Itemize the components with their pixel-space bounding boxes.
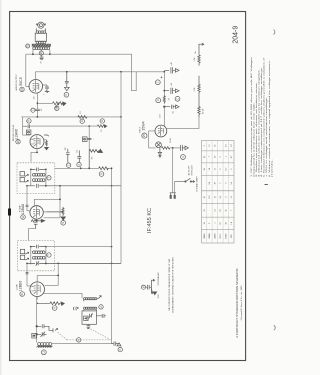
svg-text:150: 150 [34, 96, 36, 99]
gang cap bottom [87, 324, 91, 328]
AVC into T1 secondary [27, 263, 30, 286]
ref R8 [156, 98, 161, 103]
svg-text:A PHOTOFACT STANDARD NOTATION: A PHOTOFACT STANDARD NOTATION SCHEMATIC [235, 268, 239, 338]
speaker SP [36, 22, 46, 31]
12AV6 cathode resistor [44, 135, 49, 150]
fixed cap right [96, 314, 106, 318]
svg-text:+30: +30 [171, 83, 173, 86]
svg-text:0: 0 [209, 223, 211, 224]
tube V3 12AV6 [30, 135, 44, 149]
boxed label C [26, 130, 31, 135]
svg-text:M: M [142, 286, 145, 288]
T2 tuning slug A [20, 172, 28, 177]
svg-text:20: 20 [41, 62, 43, 64]
svg-text:.02: .02 [41, 109, 43, 112]
surge resistor vertical [163, 95, 165, 104]
ref C13 [77, 162, 81, 166]
scan edge strip [0, 0, 1, 375]
on-off switch [185, 178, 195, 182]
resistor inline on AVC line [78, 116, 87, 119]
svg-text:12BE6: 12BE6 [204, 232, 206, 239]
svg-text:6.3: 6.3 [215, 209, 217, 212]
svg-text:98: 98 [204, 168, 206, 170]
ref L2 [41, 350, 46, 355]
AC cord down [172, 148, 174, 193]
svg-text:0: 0 [220, 169, 222, 170]
svg-text:117: 117 [226, 168, 228, 171]
svg-text:AC ON-OFF: AC ON-OFF [187, 164, 190, 175]
ref C18 [175, 96, 180, 101]
osc grid resistor [37, 302, 64, 306]
cap C20 below jack [40, 55, 44, 60]
svg-text:R: R [28, 120, 31, 122]
cap inline on AVC dropper [87, 138, 91, 139]
line bypass cap [181, 145, 189, 151]
ref R7 [52, 306, 57, 311]
loop trimmer [89, 314, 93, 319]
svg-text:6.3: 6.3 [226, 144, 228, 147]
svg-text:0: 0 [220, 156, 222, 157]
ref C16 [31, 108, 35, 112]
AVC line [21, 116, 121, 118]
svg-text:WOUND WHERE IT CROSSING TO ADJ: WOUND WHERE IT CROSSING TO ADJUST FOR TH… [172, 257, 175, 313]
ref V4 [20, 87, 24, 91]
gang dashed link [58, 329, 112, 340]
tube voltage table [202, 141, 235, 244]
svg-text:12AV6: 12AV6 [214, 232, 217, 239]
B+ screen line [35, 71, 163, 73]
svg-text:RECT: RECT [139, 126, 141, 132]
svg-text:C: C [28, 131, 31, 133]
svg-text:1.4: 1.4 [231, 222, 233, 225]
svg-text:117: 117 [220, 209, 222, 212]
ref C bus1 [118, 347, 122, 351]
coupling cap C16 [35, 109, 40, 110]
svg-text:95: 95 [215, 145, 217, 147]
T2 primary cap [31, 168, 46, 172]
ref C12 [66, 163, 70, 167]
svg-text:50C5: 50C5 [19, 77, 23, 86]
osc grid cap [36, 324, 53, 330]
svg-text:-1: -1 [215, 222, 217, 224]
osc grid line [36, 297, 38, 343]
loop coil B [84, 307, 97, 309]
svg-text:35W4: 35W4 [226, 233, 228, 239]
svg-text:98: 98 [226, 222, 228, 224]
AC plug [170, 193, 176, 199]
svg-text:.05: .05 [173, 111, 175, 114]
B+ down to rectifier [198, 117, 200, 128]
12BA6 cathode network [31, 219, 45, 229]
T2 grid wrap [34, 186, 60, 218]
loop coil A [84, 298, 97, 300]
external antenna group [141, 285, 145, 289]
svg-text:0: 0 [231, 169, 233, 170]
center tap jack M1 [40, 50, 42, 51]
svg-text:C: C [78, 163, 81, 165]
svg-text:204-9: 204-9 [233, 26, 240, 44]
svg-text:1.4: 1.4 [209, 168, 211, 171]
osc coil core [37, 346, 53, 348]
svg-text:35W4: 35W4 [170, 138, 172, 143]
resistor R3 w ground [89, 149, 102, 168]
gimmick mark [73, 307, 78, 311]
svg-text:R: R [100, 173, 103, 175]
tube V1 12BE6 [30, 282, 45, 297]
cap C12 to det line [66, 149, 70, 163]
B+ resistor R10 [198, 76, 200, 95]
bus1 end cap [112, 342, 122, 346]
osc feedback contact [53, 328, 58, 332]
grid branch [23, 117, 31, 135]
svg-text:VOLTAGE CHART: VOLTAGE CHART [196, 175, 199, 191]
ref R4 on AVC [27, 119, 31, 123]
volume control R6 wire [37, 102, 52, 104]
B+ resistor R9 [198, 50, 200, 66]
T1 grid wrap [37, 263, 58, 285]
svg-text:ments.: ments. [271, 158, 274, 177]
svg-text:R: R [53, 307, 56, 309]
lamp wire right [170, 147, 181, 149]
svg-text:0: 0 [225, 197, 227, 198]
tube V5 35W4 [155, 125, 167, 137]
T1 tuning slug A [20, 249, 28, 254]
svg-text:C: C [119, 348, 122, 350]
T1 side rails [31, 247, 46, 265]
ref above [100, 119, 104, 123]
plug second lead [175, 182, 185, 193]
svg-text:AUDIO OUTPUT: AUDIO OUTPUT [15, 73, 18, 90]
svg-text:R: R [157, 99, 160, 101]
svg-text:1.2: 1.2 [231, 196, 233, 199]
tube V2 12BA6 [30, 206, 43, 219]
ref R2 [99, 172, 104, 177]
ref C19 [64, 93, 69, 98]
svg-text:85: 85 [226, 209, 228, 211]
output transformer T2 [35, 31, 46, 44]
svg-text:33: 33 [168, 98, 170, 100]
T2 coil secondary [33, 179, 46, 182]
AVC filter line [30, 125, 98, 127]
ref loop [99, 305, 103, 309]
plate feed to bus [46, 246, 112, 248]
svg-text:4.7: 4.7 [220, 222, 222, 225]
50C5 cathode lead [36, 94, 38, 118]
ref C17 [181, 155, 186, 160]
ext ant cap [146, 285, 152, 290]
svg-text:R: R [62, 222, 65, 224]
svg-text:12: 12 [215, 168, 217, 170]
plate cap to ground [164, 105, 180, 109]
registration tick on left border [8, 209, 11, 216]
svg-text:C: C [32, 109, 35, 111]
svg-text:R: R [101, 120, 104, 122]
svg-text:0: 0 [226, 183, 228, 184]
svg-text:12BA6: 12BA6 [208, 232, 211, 239]
AVC into secondary [27, 186, 30, 211]
svg-text:INTERLOCK: INTERLOCK [192, 164, 194, 175]
svg-text:GND: GND [158, 294, 160, 299]
svg-text:7: 7 [231, 210, 233, 211]
svg-text:47: 47 [215, 182, 217, 184]
pot R6 [53, 102, 67, 108]
svg-text:30: 30 [204, 222, 206, 224]
boxed label B [32, 333, 37, 338]
svg-text:90: 90 [204, 196, 206, 198]
svg-text:117: 117 [231, 144, 233, 147]
B+ bus (bus2) [120, 72, 122, 264]
svg-text:5.6: 5.6 [231, 182, 233, 185]
svg-text:2.2: 2.2 [101, 129, 103, 131]
IF transformer T2 dashed box [17, 163, 55, 194]
plate bypass cap C19 [64, 72, 69, 91]
svg-text:95: 95 [204, 209, 206, 211]
filter cap A [164, 67, 179, 73]
svg-text:2: 2 [220, 183, 222, 184]
svg-text:C: C [84, 138, 87, 140]
T1 secondary cap [27, 261, 121, 265]
svg-text:6. Volume control at maximum,: 6. Volume control at maximum, no signal … [268, 59, 271, 177]
loop arrow out [97, 296, 101, 299]
T1 coil primary [33, 251, 46, 254]
osc coil L2 [38, 343, 52, 346]
svg-text:EXTERNAL ANT: EXTERNAL ANT [157, 271, 160, 285]
T1 primary cap [31, 245, 46, 249]
svg-text:IF:455 KC: IF:455 KC [147, 208, 153, 233]
ext ant arrows [152, 279, 157, 294]
svg-text:PIN: PIN [231, 234, 233, 238]
ref V1 [20, 292, 25, 297]
svg-text:33: 33 [215, 196, 217, 198]
svg-text:0.5: 0.5 [220, 196, 222, 199]
T2 side rails [31, 169, 46, 185]
svg-text:+40: +40 [171, 62, 173, 65]
svg-text:C: C [67, 164, 70, 166]
wire plate 50C5 [26, 54, 30, 86]
T1 coil secondary [33, 256, 46, 259]
ref V2 [21, 215, 26, 220]
AVC bus (bus1) [111, 168, 113, 343]
svg-text:C: C [182, 156, 185, 158]
12AV6 out wire to IF [31, 152, 37, 161]
ref R1 [61, 221, 66, 226]
svg-text:C: C [65, 94, 68, 96]
transformer core [32, 44, 51, 47]
svg-text:THE CONSTRUCTION OF THE ADJUST: THE CONSTRUCTION OF THE ADJUSTED TURNS O… [168, 258, 171, 311]
svg-text:7: 7 [209, 156, 211, 157]
ref T2 [47, 176, 51, 180]
IF transformer T1 dashed box [17, 241, 54, 271]
svg-text:30: 30 [215, 156, 217, 158]
svg-text:-1: -1 [226, 156, 228, 158]
svg-text:1.2: 1.2 [209, 144, 211, 147]
right margin bracket marks [274, 30, 276, 35]
svg-text:250: 250 [65, 147, 67, 150]
heater resistor [162, 147, 170, 150]
resistor inline on AVC filter [97, 125, 105, 128]
svg-text:C: C [157, 81, 160, 83]
wire to T1 [29, 229, 36, 241]
50C5 screen bypass [45, 85, 49, 93]
wire B+ to output [50, 54, 136, 90]
svg-text:2: 2 [44, 94, 46, 95]
svg-text:R: R [81, 120, 84, 122]
cap C13 [77, 151, 81, 163]
ref R6 [55, 106, 59, 110]
heater ground [158, 148, 161, 157]
T2 secondary cap [27, 184, 121, 188]
ref T1 [26, 44, 30, 48]
svg-text:C: C [176, 98, 179, 100]
svg-text:0: 0 [204, 145, 206, 146]
resistor R2 inline [99, 167, 109, 170]
svg-text:12BE6: 12BE6 [19, 281, 23, 292]
grid cap [23, 124, 30, 128]
svg-text:+ 15% in voltage and resistanc: + 15% in voltage and resistance readings… [265, 96, 268, 177]
svg-text:.01: .01 [77, 150, 79, 152]
svg-text:110: 110 [209, 196, 211, 199]
svg-text:+: + [93, 139, 95, 140]
tube V4 50C5 [29, 80, 43, 94]
svg-text:12BA6: 12BA6 [21, 204, 25, 215]
svg-text:3.3: 3.3 [80, 111, 82, 113]
ref V3 [16, 140, 20, 144]
det line from T2 [55, 167, 99, 169]
svg-text:8.4: 8.4 [209, 182, 211, 185]
T2 tuning slug B [20, 177, 28, 182]
svg-text:©Howard W. Sams & Co., Inc. 19: ©Howard W. Sams & Co., Inc. 1952 [240, 285, 243, 321]
svg-text:1K 1W: 1K 1W [203, 108, 205, 114]
osc trimmer [36, 332, 47, 337]
transformer secondary [33, 47, 50, 50]
notes block [265, 184, 268, 186]
loop antenna wire [44, 293, 83, 298]
boxed label D [82, 137, 87, 142]
svg-text:5. Nominal tolerance on compo: 5. Nominal tolerance on component values… [262, 57, 265, 177]
electrolytic ref [155, 80, 160, 85]
wire to 35W4 plate [163, 107, 165, 127]
filter cap B [164, 88, 179, 94]
T2 coil primary [33, 173, 46, 176]
screen resistor R1 [47, 207, 66, 220]
secondary leads [26, 50, 50, 55]
ref gang [77, 338, 81, 342]
loop box [82, 300, 97, 325]
heater wire [149, 131, 156, 148]
svg-text:4.7: 4.7 [231, 156, 233, 159]
T1 tuning slug B [20, 255, 28, 260]
border frame [10, 12, 246, 361]
osc coil out [52, 344, 112, 345]
ref T1a [47, 253, 51, 257]
B+ resistor R11 [198, 95, 200, 117]
pilot lamp [156, 142, 162, 148]
boxed label A1 [84, 316, 88, 320]
svg-text:85: 85 [204, 156, 206, 158]
svg-text:M: M [40, 52, 43, 54]
ref V5 [142, 133, 147, 138]
svg-text:12AV6: 12AV6 [15, 129, 19, 139]
svg-text:35W4: 35W4 [142, 121, 146, 130]
